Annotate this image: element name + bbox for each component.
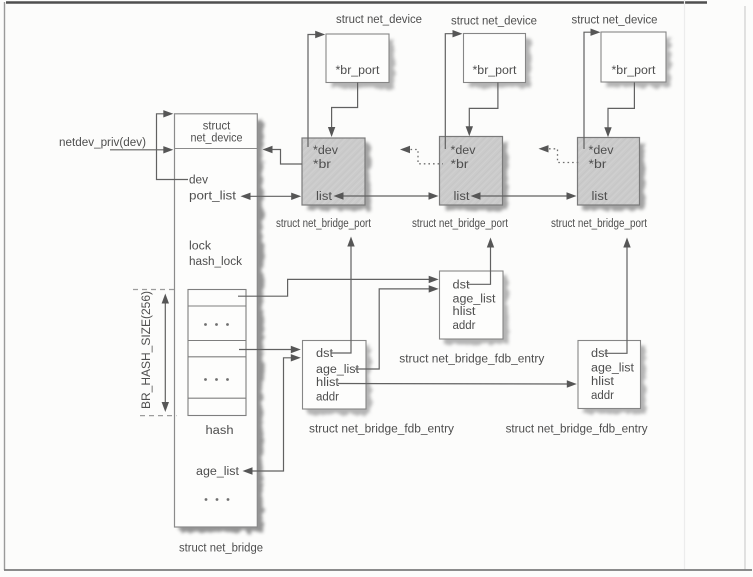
svg-text:*br: *br <box>313 159 331 171</box>
svg-text:hlist: hlist <box>453 306 477 318</box>
box net_bridge_port 1 <box>302 138 370 210</box>
dotted wire *br port3 back-pointer <box>539 145 582 162</box>
label struct net_bridge_fdb_entry lower-left <box>309 424 454 436</box>
wire netdev_priv arrow <box>110 146 173 153</box>
svg-text:age_list: age_list <box>453 294 497 306</box>
wire fdb right dst up to port3 <box>605 238 631 354</box>
label net_device (header line2) <box>191 133 243 145</box>
svg-text:list: list <box>454 191 471 203</box>
label hash <box>206 425 234 437</box>
svg-text:*br: *br <box>589 159 607 171</box>
wire fdb lower-left hlist to fdb right <box>338 380 577 387</box>
svg-text:struct net_bridge_fdb_entry: struct net_bridge_fdb_entry <box>399 354 544 366</box>
label struct net_bridge <box>179 543 263 555</box>
double arrow BR_HASH_SIZE <box>162 294 169 413</box>
dashed bracket line top <box>133 289 175 291</box>
svg-text:addr: addr <box>316 392 339 404</box>
wire hash cell1 to fdb middle (dst level) <box>238 276 439 297</box>
svg-text:addr: addr <box>453 320 476 332</box>
svg-text:net_device: net_device <box>191 133 243 145</box>
wire *br port1 to net_bridge <box>263 146 303 164</box>
dots in hash cell 4 <box>204 378 229 381</box>
wire fdb lower-left dst up to port1 <box>331 237 355 354</box>
field *br 3 <box>589 159 607 171</box>
svg-text:struct net_bridge_fdb_entry: struct net_bridge_fdb_entry <box>309 424 454 436</box>
svg-text:struct net_device: struct net_device <box>451 16 537 28</box>
box struct net_device top 1 <box>326 34 394 88</box>
field lock <box>189 241 211 253</box>
box struct net_device top 2 <box>464 34 531 88</box>
box net_bridge_fdb_entry middle <box>440 271 509 344</box>
field hlist (fdb lower-left) <box>316 377 340 389</box>
wire fdb middle dst up to port2 <box>467 238 494 285</box>
box struct net_bridge (big left box) <box>175 114 264 532</box>
svg-text:age_list: age_list <box>591 362 635 374</box>
wire hash cell3 to fdb lower-left (dst level) <box>239 346 301 353</box>
dots below age_list <box>205 498 230 501</box>
label BR_HASH_SIZE(256) rotated <box>141 291 153 409</box>
box net_bridge_fdb_entry right <box>578 341 646 414</box>
svg-text:struct net_bridge: struct net_bridge <box>179 543 263 555</box>
wire list port1 to port2 <box>334 192 439 199</box>
frame left edge <box>4 2 6 570</box>
svg-text:hlist: hlist <box>591 376 615 388</box>
field dst (fdb right) <box>591 348 609 360</box>
svg-text:*dev: *dev <box>313 145 338 157</box>
dots in hash cell 2 <box>204 323 229 326</box>
svg-text:dst: dst <box>453 280 471 292</box>
svg-text:dev: dev <box>189 174 208 186</box>
label netdev_priv(dev) <box>59 137 146 149</box>
svg-text:*br_port: *br_port <box>336 65 381 77</box>
wire bridge age_list to fdb lower-left age_list (double arrow) <box>243 354 301 475</box>
field list 1 <box>316 191 333 203</box>
field list 3 <box>592 191 609 203</box>
label struct net_bridge_port 2 <box>412 218 509 230</box>
wire *br_port3 down to port3 <box>604 83 634 138</box>
wire *dev port1 to net_device1 <box>308 31 325 147</box>
svg-text:*br: *br <box>451 159 469 171</box>
wire *dev port3 to net_device3 <box>584 29 601 150</box>
svg-text:struct net_device: struct net_device <box>336 14 422 26</box>
svg-text:*br_port: *br_port <box>473 65 518 77</box>
label struct net_device 2 <box>451 16 537 28</box>
field addr (fdb right) <box>591 390 614 402</box>
wire *dev port2 to net_device2 <box>445 30 462 149</box>
field dst (fdb middle) <box>453 280 471 292</box>
svg-text:hash: hash <box>206 425 234 437</box>
svg-text:BR_HASH_SIZE(256): BR_HASH_SIZE(256) <box>141 291 153 409</box>
field dst (fdb lower-left) <box>316 348 334 360</box>
frame bottom edge <box>4 569 752 571</box>
svg-text:*dev: *dev <box>451 145 476 157</box>
field *br 2 <box>451 159 469 171</box>
field hlist (fdb right) <box>591 376 615 388</box>
field dev <box>189 174 208 186</box>
svg-text:addr: addr <box>591 390 614 402</box>
svg-text:age_list: age_list <box>196 466 240 478</box>
frame top edge <box>6 1 707 3</box>
svg-text:lock: lock <box>189 241 211 253</box>
label struct net_device 1 <box>336 14 422 26</box>
svg-text:port_list: port_list <box>189 191 237 203</box>
label struct net_device 3 <box>572 15 658 27</box>
svg-text:struct net_device: struct net_device <box>572 15 658 27</box>
svg-text:struct: struct <box>203 121 231 133</box>
dashed bracket line bottom <box>140 415 177 417</box>
field *dev 3 <box>589 145 614 157</box>
box struct net_device top 3 <box>601 32 671 87</box>
field age_list (fdb middle) <box>453 294 497 306</box>
svg-text:list: list <box>592 191 609 203</box>
field addr (fdb lower-left) <box>316 392 339 404</box>
label struct net_bridge_fdb_entry right <box>506 424 648 436</box>
label struct net_bridge_fdb_entry middle <box>399 354 544 366</box>
wire list port2 to port3 <box>471 192 577 199</box>
box net_bridge_port 3 <box>578 138 645 211</box>
box net_bridge_fdb_entry lower-left <box>303 341 372 415</box>
svg-text:list: list <box>316 191 333 203</box>
svg-text:hlist: hlist <box>316 377 340 389</box>
field addr (fdb middle) <box>453 320 476 332</box>
label struct net_bridge_port 3 <box>551 218 648 230</box>
svg-text:dst: dst <box>591 348 609 360</box>
field list 2 <box>454 191 471 203</box>
svg-text:*dev: *dev <box>589 145 614 157</box>
wire dev pointer <box>157 110 189 179</box>
wire fdb lower-left age_list to fdb middle age_list <box>355 285 439 369</box>
frame right edge <box>685 0 746 570</box>
svg-text:struct net_bridge_port: struct net_bridge_port <box>276 218 372 230</box>
box net_bridge_port 2 <box>440 137 508 211</box>
svg-text:struct net_bridge_fdb_entry: struct net_bridge_fdb_entry <box>506 424 648 436</box>
field hlist (fdb middle) <box>453 306 477 318</box>
field *dev 2 <box>451 145 476 157</box>
field *br_port 2 <box>473 65 518 77</box>
svg-text:hash_lock: hash_lock <box>189 256 242 268</box>
field age_list (fdb lower-left) <box>316 364 360 376</box>
wire port_list to list port1 (double arrow) <box>241 193 302 200</box>
svg-text:*br_port: *br_port <box>612 65 657 77</box>
label struct (net_device header line1) <box>203 121 231 133</box>
label struct net_bridge_port 1 <box>276 218 372 230</box>
dotted wire *br port2 back-pointer <box>400 146 443 164</box>
svg-text:struct net_bridge_port: struct net_bridge_port <box>551 218 648 230</box>
svg-text:age_list: age_list <box>316 364 360 376</box>
hash array table <box>188 290 246 416</box>
svg-text:netdev_priv(dev): netdev_priv(dev) <box>59 137 146 149</box>
field *br 1 <box>313 159 331 171</box>
svg-text:dst: dst <box>316 348 334 360</box>
field age_list <box>196 466 240 478</box>
field *br_port 1 <box>336 65 381 77</box>
field age_list (fdb right) <box>591 362 635 374</box>
wire *br_port2 down to port2 <box>466 83 498 137</box>
svg-text:struct net_bridge_port: struct net_bridge_port <box>412 218 509 230</box>
field *br_port 3 <box>612 65 657 77</box>
field *dev 1 <box>313 145 338 157</box>
field port_list <box>189 191 237 203</box>
wire *br_port1 down to port1 <box>328 83 358 138</box>
field hash_lock <box>189 256 242 268</box>
